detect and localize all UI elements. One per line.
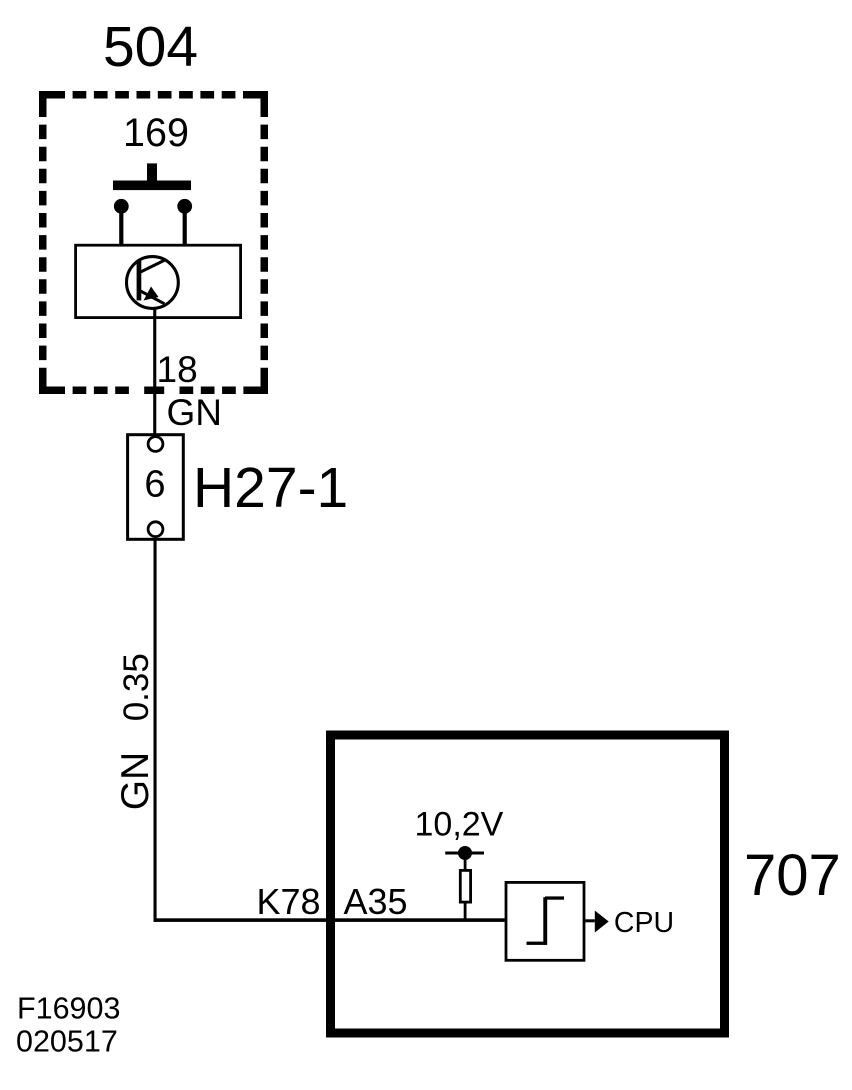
connector pin number 6 bbox=[144, 464, 165, 506]
Schmitt trigger step symbol bbox=[527, 896, 565, 945]
supply node dot bbox=[458, 846, 472, 860]
sensor pin wires bbox=[119, 205, 187, 246]
dashed component box 504 bbox=[39, 91, 268, 394]
figure date 020517 bbox=[16, 1025, 118, 1059]
Schmitt trigger box bbox=[506, 882, 584, 960]
svg-text:020517: 020517 bbox=[16, 1025, 118, 1059]
CPU arrow bbox=[595, 911, 609, 933]
svg-text:H27-1: H27-1 bbox=[193, 456, 348, 520]
svg-text:10,2V: 10,2V bbox=[415, 806, 504, 844]
pull-up resistor bbox=[460, 870, 470, 902]
connector H27-1 box bbox=[128, 435, 184, 540]
svg-text:CPU: CPU bbox=[614, 907, 674, 939]
sensor body box bbox=[76, 245, 241, 317]
wire colour label GN bbox=[167, 392, 223, 433]
svg-text:0.35: 0.35 bbox=[117, 653, 156, 721]
transistor symbol inside sensor bbox=[126, 257, 178, 309]
sensor label 169 bbox=[123, 111, 189, 155]
CPU label bbox=[614, 907, 674, 939]
wire supply to resistor bbox=[464, 853, 467, 870]
ECU box 707 bbox=[331, 735, 725, 1033]
sensor pin terminal dots bbox=[114, 199, 192, 214]
wire colour label GN (rotated) bbox=[114, 752, 157, 811]
svg-text:GN: GN bbox=[167, 392, 223, 433]
long wire from connector to ECU bbox=[154, 539, 157, 922]
figure number F16903 bbox=[17, 991, 120, 1025]
connector pin circles bbox=[148, 437, 163, 537]
connector label H27-1 bbox=[193, 456, 348, 520]
component label 504 bbox=[103, 15, 198, 79]
wire Schmitt to CPU arrow bbox=[585, 919, 594, 922]
svg-text:K78: K78 bbox=[257, 881, 321, 922]
pin label K78 bbox=[257, 881, 321, 922]
pin label A35 bbox=[344, 881, 408, 922]
wire resistor to input line bbox=[464, 902, 467, 920]
sensor 169 trigger-wheel symbol bbox=[113, 163, 191, 190]
wire gauge label 0.35 (rotated) bbox=[117, 653, 156, 721]
svg-text:169: 169 bbox=[123, 111, 189, 155]
horizontal wire into ECU bbox=[154, 918, 505, 922]
svg-text:6: 6 bbox=[144, 464, 165, 506]
svg-text:F16903: F16903 bbox=[17, 991, 120, 1025]
svg-text:A35: A35 bbox=[344, 881, 408, 922]
svg-text:GN: GN bbox=[114, 752, 157, 811]
svg-text:707: 707 bbox=[744, 843, 841, 908]
svg-text:18: 18 bbox=[157, 349, 198, 390]
ECU label 707 bbox=[744, 843, 841, 908]
svg-text:504: 504 bbox=[103, 15, 198, 79]
pin label 18 bbox=[157, 349, 198, 390]
supply rail bar bbox=[445, 852, 484, 855]
wire from sensor down to connector bbox=[153, 307, 156, 437]
supply label 10,2V bbox=[415, 806, 504, 844]
